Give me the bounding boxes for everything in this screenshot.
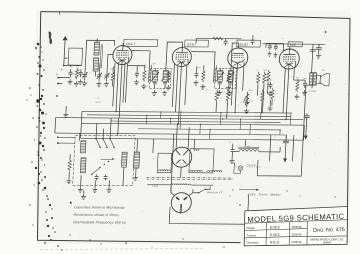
scan specks left margin (37, 43, 40, 46)
capacitor right rail b (275, 44, 277, 46)
capacitor 8MF b + arrow (283, 140, 289, 142)
output transformer (309, 73, 313, 86)
svg-text:Green S.: Green S. (247, 164, 256, 167)
wire bus 3 (81, 123, 304, 125)
switch arms band (96, 139, 101, 148)
capacitor ant 2 (80, 69, 82, 72)
wire AVC line above V3 (196, 37, 241, 39)
tube V4 6V6 (279, 49, 300, 69)
wire tube top stubs (122, 43, 124, 46)
svg-text:20/5/46: 20/5/46 (292, 225, 302, 229)
variable capacitor trimmer (98, 71, 100, 75)
resistor AVC (226, 89, 230, 102)
scan specks scattered (325, 31, 327, 33)
wire V3 to V4 grid (266, 43, 284, 50)
svg-text:T.C.: T.C. (97, 97, 101, 99)
wire IFT2 to V3 diode (231, 43, 239, 69)
resistor V2 screen (201, 69, 205, 82)
transformer core dashdot (147, 176, 233, 179)
tube V1 6SA7 (112, 46, 132, 65)
svg-text:W 6M06: W 6M06 (309, 91, 316, 93)
variable capacitor tuning C2 (106, 71, 108, 75)
label box V3 (237, 40, 261, 47)
wire bus 6 (81, 138, 304, 140)
svg-text:20/5/46: 20/5/46 (292, 233, 302, 237)
svg-text:Intermediate Frequency 455 k: Intermediate Frequency 455 kc. (73, 220, 127, 224)
svg-text:5Y3: 5Y3 (193, 148, 199, 152)
arrow 230v (239, 189, 259, 191)
capacitor AVC (225, 39, 227, 42)
tube V3 6SQ7 (227, 48, 248, 68)
resistor audio a (260, 90, 264, 103)
svg-text:Resistances shown in Ohms.: Resistances shown in Ohms. (74, 213, 120, 217)
svg-text:6SQ7: 6SQ7 (239, 43, 248, 47)
capacitor right bus A (306, 113, 308, 116)
speaker (316, 75, 320, 84)
resistor V1 cath (111, 70, 115, 82)
potentiometer VC (245, 92, 249, 108)
wire bus 5 (55, 133, 286, 135)
wire lamp loop (234, 164, 241, 174)
wire bus 2 (56, 118, 304, 120)
wire V3 pins (231, 67, 233, 106)
svg-text:Capacities shown in Microfa: Capacities shown in Microfarads (74, 205, 125, 209)
svg-text:22/5/46: 22/5/46 (292, 240, 302, 244)
wire B+ right rail (263, 43, 325, 46)
tube V2 6SK7 (172, 48, 192, 67)
svg-text:Traced: Traced (247, 233, 257, 237)
svg-text:230v. Trans. Maker: 230v. Trans. Maker (246, 192, 281, 196)
transformer primary (147, 184, 171, 186)
resistor V3 grid leak (262, 72, 266, 85)
svg-text:25MF: 25MF (303, 78, 307, 80)
padder caps (96, 174, 98, 176)
svg-text:.1: .1 (131, 69, 133, 71)
paper grain (236, 18, 239, 21)
svg-text:E.W.S: E.W.S (270, 226, 280, 230)
capacitor 25MF output (318, 44, 320, 48)
mains plug (171, 193, 192, 213)
power transformer winding B box (189, 149, 214, 173)
wire grid cap loop V1 (85, 40, 114, 65)
svg-text:Drawn: Drawn (247, 226, 256, 230)
svg-text:.01: .01 (256, 70, 259, 72)
svg-text:E.W.S: E.W.S (270, 233, 280, 237)
border frame (41, 12, 350, 245)
grounds osc (79, 187, 81, 189)
resistor audio b (271, 88, 275, 101)
ground IFT2 (218, 90, 220, 92)
wire V1 pins (116, 64, 118, 112)
resistor AVC filter horizontal (213, 37, 223, 40)
svg-text:.1: .1 (190, 69, 192, 71)
paper edge shadow (40, 249, 205, 250)
svg-text:6SA7T: 6SA7T (95, 101, 102, 104)
capacitor V4 cath 25MF (304, 80, 306, 83)
capacitor 8MF a (232, 147, 234, 150)
coil inner right (121, 152, 127, 167)
variable capacitor tuning C1 (84, 70, 86, 74)
ground top left (65, 106, 67, 112)
switch inner (92, 167, 100, 174)
svg-text:V.C.: V.C. (249, 101, 254, 103)
wire bus left drops (54, 118, 57, 133)
osc coil top (80, 141, 86, 153)
title block lines (245, 220, 348, 224)
wire antenna to coil (64, 65, 68, 67)
ground gang (83, 81, 85, 83)
label box V1 (124, 39, 158, 46)
osc unit box (73, 135, 136, 186)
wire right loop (257, 160, 302, 176)
ground right top a (246, 94, 248, 101)
coil outside right (133, 152, 139, 168)
tube V5 5Y3 rectifier (171, 147, 192, 167)
wire V1 plate to IFT1 (130, 51, 151, 83)
svg-text:.05: .05 (171, 69, 174, 71)
wire bus 1b (87, 115, 291, 117)
wire AVC bus (82, 111, 291, 113)
capacitor coupling .01 (252, 38, 254, 41)
pilot lamp (238, 166, 243, 171)
svg-text:6SA.7: 6SA.7 (126, 42, 136, 46)
wire speaker down (302, 85, 306, 162)
ground IFT1 (153, 90, 155, 92)
resistor V4 cath (295, 79, 299, 92)
svg-text:Checked: Checked (247, 241, 259, 245)
capacitor 8MF output (312, 44, 313, 73)
svg-text:500M: 500M (248, 90, 253, 92)
resistor ant shunt (75, 68, 79, 79)
label box V2 (185, 40, 209, 47)
IF transformer T2 (214, 68, 236, 88)
wire bus junction stubs (160, 112, 162, 119)
svg-text:250M: 250M (263, 70, 268, 72)
IF transformer T1 (149, 68, 171, 88)
wire heater bus (138, 129, 281, 130)
osc coil inner (80, 158, 86, 173)
wire V4 pins (283, 68, 285, 113)
wire bus 2b (110, 121, 280, 122)
resistor V3 plate load (256, 72, 260, 85)
svg-text:Switch on V.C.: Switch on V.C. (207, 190, 224, 194)
capacitor V2 cath (195, 71, 197, 74)
title block frame (244, 207, 347, 246)
svg-text:.02: .02 (268, 85, 271, 87)
label box V4 (288, 42, 302, 47)
antenna A (64, 37, 65, 66)
resistor left (68, 159, 72, 172)
svg-text:6V6: 6V6 (290, 43, 296, 47)
wire V2 plate to IFT2 (190, 52, 216, 83)
antenna coil secondary (94, 42, 100, 55)
capacitor tone (269, 82, 271, 85)
resistor V4 grid leak (266, 70, 270, 83)
node P terminals (57, 77, 59, 79)
node dots left (57, 136, 59, 138)
wire drops to lower (78, 133, 80, 141)
border tick (48, 34, 331, 227)
svg-text:6SK7: 6SK7 (187, 43, 196, 47)
ground notes (83, 190, 85, 194)
resistor V1 screen (142, 69, 146, 82)
capacitor V1 screen (136, 71, 138, 74)
title block columns (265, 223, 268, 246)
wire mains loop (169, 186, 249, 224)
ink blotch left (48, 32, 52, 45)
ground ant (69, 79, 71, 81)
svg-text:T.C.: T.C. (268, 79, 273, 82)
capacitor right rail a (269, 44, 271, 46)
resistor diode load (215, 89, 219, 102)
svg-text:T-246: T-246 (152, 185, 159, 188)
power transformer winding A box (157, 153, 172, 172)
svg-text:R.E.S: R.E.S (270, 240, 280, 244)
resistor V3 grid 1M (227, 71, 231, 83)
wire IFT1 to V2 grid (166, 42, 183, 69)
svg-text:400: 400 (296, 77, 299, 79)
wire bus elbows right (303, 125, 306, 140)
antenna coil primary box (68, 48, 83, 66)
resistor V2 cath (167, 71, 171, 83)
capacitor ant series (69, 69, 71, 72)
wire rect plates (176, 123, 177, 148)
svg-text:.05: .05 (97, 68, 100, 70)
svg-text:.0001: .0001 (71, 73, 75, 75)
switch mains (199, 189, 205, 193)
wire V1 extra pins (113, 63, 115, 106)
ground right top b (269, 100, 271, 106)
wire V2 pins (175, 66, 177, 112)
svg-text:A: A (61, 68, 63, 72)
svg-text:WAIHI: WAIHI (323, 241, 331, 245)
wire plug leads (171, 186, 175, 196)
